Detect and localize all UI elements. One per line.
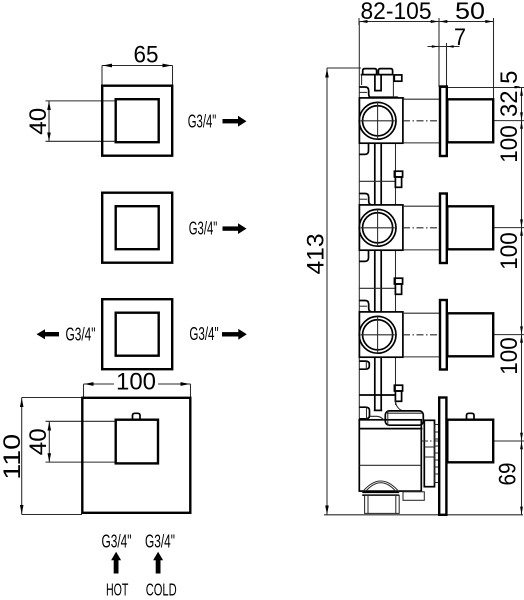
svg-text:110: 110 <box>0 434 26 480</box>
knob S3 index tick <box>158 331 160 338</box>
handle 3 <box>447 313 493 356</box>
wall plate segment 4 <box>439 398 446 515</box>
svg-text:G3/4": G3/4" <box>188 111 217 131</box>
centerline V2 <box>403 227 438 229</box>
mixer body joint lines <box>359 429 422 466</box>
mixer top flange <box>370 401 424 426</box>
dimension 100 text <box>114 369 158 396</box>
dimension 40 top line <box>46 101 116 142</box>
pipe V3-mixer <box>374 358 382 410</box>
svg-text:40: 40 <box>25 108 52 135</box>
bracket V3 top <box>359 301 372 312</box>
svg-text:82-105: 82-105 <box>361 0 432 25</box>
mixer adapter block <box>424 420 434 486</box>
bottom reference extension line <box>324 514 523 516</box>
svg-text:G3/4": G3/4" <box>66 324 96 344</box>
side port V1-V2 <box>394 171 402 187</box>
mixer outlet stub <box>365 495 400 513</box>
dimension 82-105 / 50 line <box>359 18 494 99</box>
knob S2 index tick <box>158 225 160 232</box>
dimension 40 bottom line <box>46 421 116 462</box>
mixer right step <box>403 492 424 501</box>
escutcheon square S1 outer <box>102 86 172 156</box>
handle 4 <box>447 420 493 463</box>
bracket V1 bottom <box>359 143 368 154</box>
svg-text:COLD: COLD <box>146 580 177 600</box>
joint line V1-V2 <box>360 180 396 182</box>
mixer dome <box>363 481 399 492</box>
top inlet stem <box>375 75 381 91</box>
knob square S2 inner <box>116 206 159 249</box>
svg-text:100: 100 <box>496 337 523 375</box>
joint line V3-mixer <box>359 394 395 396</box>
arrow up cold <box>153 552 163 574</box>
mixer dome base <box>362 492 399 495</box>
arrow left row3 <box>37 329 60 339</box>
stem to plate V1 <box>403 99 440 143</box>
cartridge outer circle V1 <box>359 102 396 139</box>
mixer bracket top <box>359 407 369 419</box>
svg-text:G3/4": G3/4" <box>189 219 218 239</box>
bottom knob index tick <box>157 438 159 445</box>
dimension 110 line <box>20 398 82 515</box>
centerline mixer <box>422 440 439 442</box>
bracket V2 top <box>359 194 372 205</box>
dimension 413 line <box>325 68 361 515</box>
knob S1 index tick <box>158 118 160 125</box>
valve body V1 <box>359 98 403 143</box>
arrow right row3 <box>222 329 247 340</box>
pipe V2-V3 <box>375 251 381 312</box>
centerline V3 <box>403 334 438 336</box>
arrow up hot <box>111 552 121 574</box>
bottom knob tab <box>133 413 141 419</box>
dimension 65 line <box>102 64 173 86</box>
escutcheon square S3 outer <box>102 299 172 369</box>
pipe V1-V2 <box>375 144 381 205</box>
escutcheon square S2 outer <box>102 193 172 263</box>
arrow right row1 <box>223 116 247 127</box>
svg-text:G3/4": G3/4" <box>189 324 218 344</box>
bottom escutcheon plate <box>82 398 190 513</box>
svg-text:100: 100 <box>496 232 523 270</box>
top body outline <box>362 75 405 99</box>
mounting rail <box>358 22 360 492</box>
dimension 7 line <box>428 43 460 87</box>
cartridge inner circle V1 <box>363 106 393 136</box>
svg-text:100: 100 <box>116 369 156 396</box>
handle 1 <box>447 99 493 142</box>
handle 2 <box>447 206 493 249</box>
valve body V3 <box>359 312 403 357</box>
valve body V2 <box>359 205 403 250</box>
cartridge inner circle V2 <box>363 213 393 243</box>
svg-text:HOT: HOT <box>106 580 129 600</box>
svg-text:69: 69 <box>495 463 522 486</box>
crosshair V3 <box>361 316 395 353</box>
side port V3-mixer <box>394 385 402 401</box>
joint line V2-V3 <box>360 287 396 289</box>
body edge line V1-V2 <box>395 144 397 205</box>
bracket V2 bottom <box>359 250 368 261</box>
mixer body <box>359 420 421 491</box>
arrow right row2 <box>223 223 247 234</box>
right dimension chain line <box>440 88 524 515</box>
cartridge outer circle V3 <box>359 316 396 353</box>
centerline V1 <box>403 120 438 122</box>
dimension 100 line <box>84 382 191 398</box>
crosshair V1 <box>361 102 395 139</box>
crosshair V2 <box>361 209 395 246</box>
svg-text:32,5: 32,5 <box>496 71 523 118</box>
mixer thread strip <box>435 425 439 483</box>
top right plug <box>394 75 402 81</box>
svg-text:G3/4": G3/4" <box>102 531 132 551</box>
knob square S1 inner <box>116 99 159 142</box>
stem to plate V2 <box>403 206 440 250</box>
wall plate segment 2 <box>440 194 447 264</box>
svg-text:50: 50 <box>455 0 485 25</box>
cartridge inner circle V3 <box>363 320 393 350</box>
svg-text:65: 65 <box>134 42 159 69</box>
svg-text:G3/4": G3/4" <box>145 531 175 551</box>
top union nut <box>361 69 394 75</box>
bracket V3 bottom <box>359 361 369 369</box>
side port V2-V3 <box>394 278 402 294</box>
cartridge outer circle V2 <box>359 209 396 246</box>
svg-text:40: 40 <box>25 428 52 455</box>
knob square S3 inner <box>116 313 159 356</box>
svg-text:7: 7 <box>454 24 466 51</box>
handle 4 tab <box>467 413 475 419</box>
svg-text:100: 100 <box>496 125 523 163</box>
bottom knob <box>116 420 158 464</box>
wall plate segment 3 <box>440 300 447 370</box>
body edge line V3-mixer <box>395 358 397 405</box>
wall plate segment 1 <box>440 87 447 157</box>
bracket V1 top <box>359 87 372 98</box>
stem to plate V3 <box>403 313 440 357</box>
body edge line V2-V3 <box>395 251 397 312</box>
svg-text:413: 413 <box>302 234 329 275</box>
